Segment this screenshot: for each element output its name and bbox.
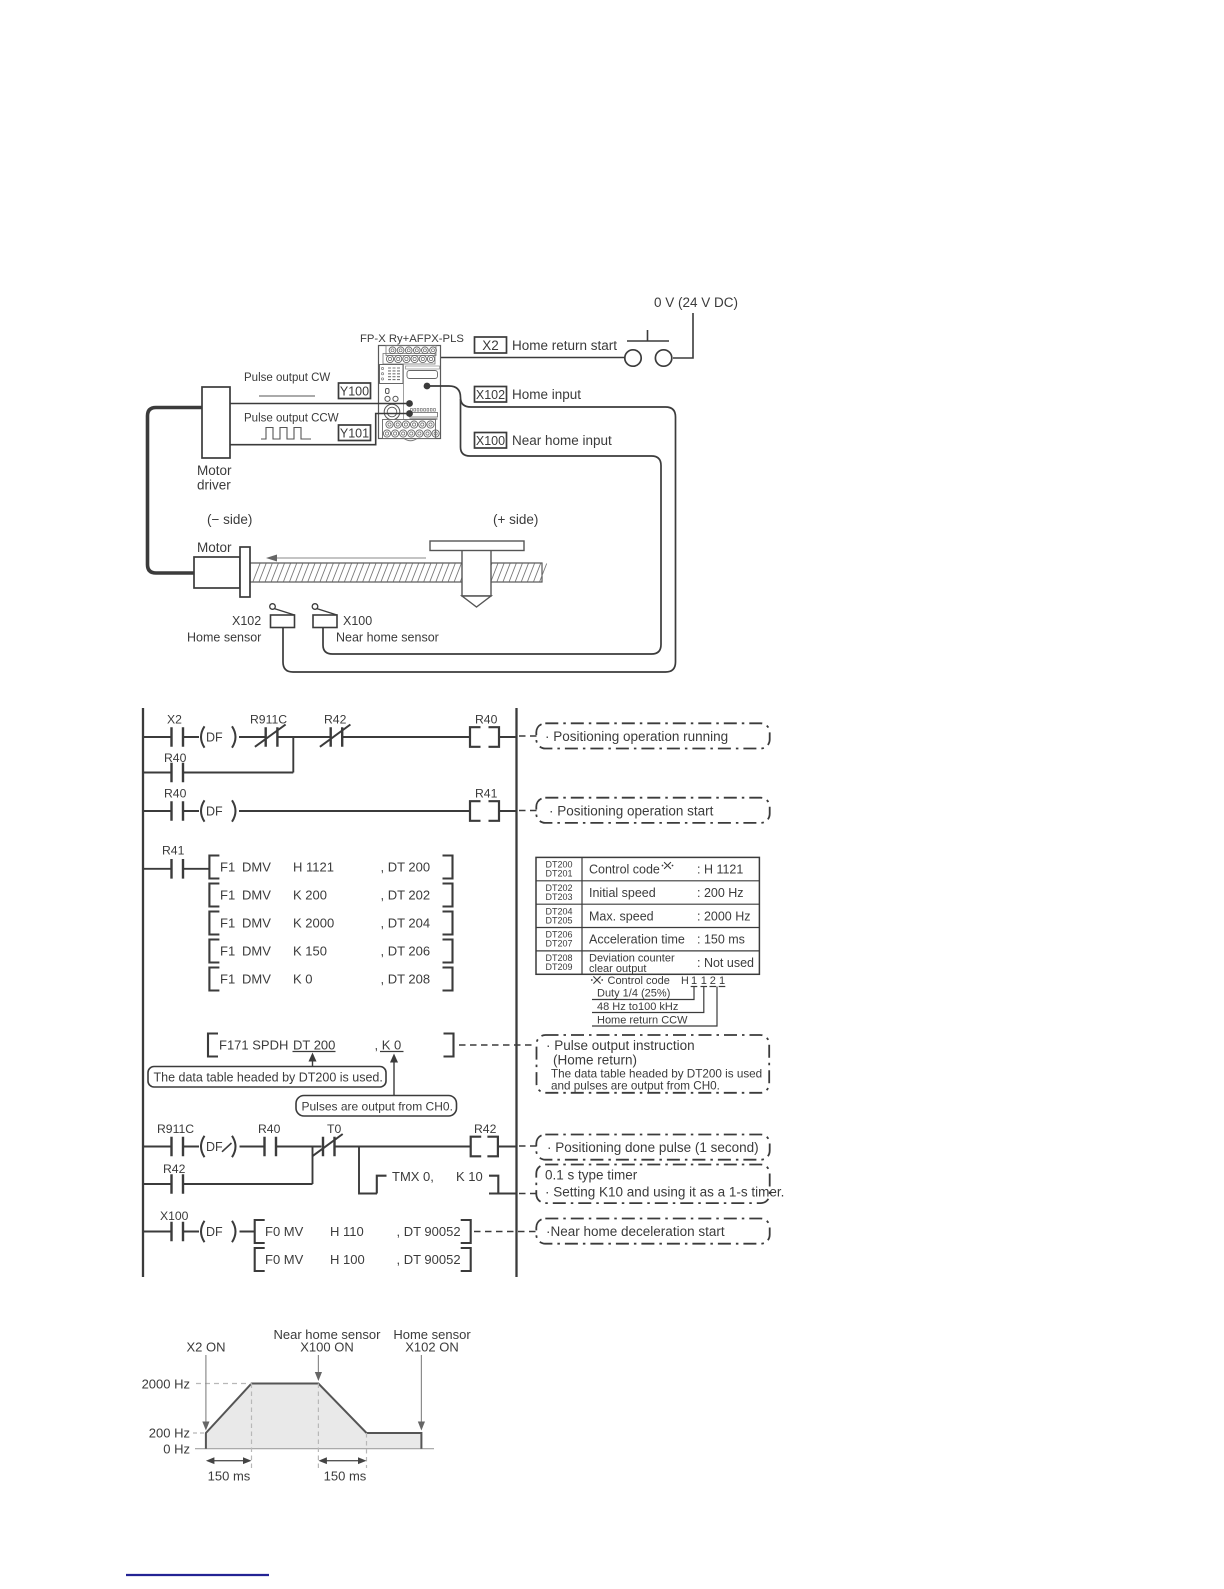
label Pulse output CW xyxy=(244,372,330,396)
wire X102 loop home sensor to PLC xyxy=(283,383,676,672)
DF rising edge rung1 xyxy=(201,726,236,747)
wire X100 loop near home sensor xyxy=(323,399,661,654)
table DT200 settings xyxy=(536,857,759,975)
svg-text:X2: X2 xyxy=(167,713,182,727)
arrow X100 ON xyxy=(315,1355,322,1381)
svg-text:1: 1 xyxy=(719,975,725,987)
svg-text:F0 MV: F0 MV xyxy=(265,1252,304,1267)
label Home return start xyxy=(512,338,617,353)
label Near home input xyxy=(512,433,612,448)
label 200 Hz xyxy=(149,1426,190,1441)
svg-text:R42: R42 xyxy=(474,1122,497,1136)
dashed link TMX xyxy=(519,1193,537,1195)
DF rising edge rung2 xyxy=(201,800,236,821)
callout Positioning operation running xyxy=(536,723,769,748)
label FP-X Ry+AFPX-PLS xyxy=(360,333,464,345)
chart dashed level 200Hz xyxy=(193,1432,206,1434)
svg-text:driver: driver xyxy=(197,478,231,493)
dashed link rung1 xyxy=(519,735,537,737)
svg-text:·Near home deceleration start: ·Near home deceleration start xyxy=(546,1224,725,1239)
pushbutton switch Home return start xyxy=(625,330,672,366)
svg-text:Pulse output CW: Pulse output CW xyxy=(244,372,330,384)
svg-text:Y100: Y100 xyxy=(340,384,369,398)
svg-text:and pulses are output from CH0: and pulses are output from CH0. xyxy=(551,1080,720,1093)
rung 5 wire xyxy=(143,1231,255,1233)
callout Pulse output instruction xyxy=(537,1035,770,1093)
node X2 box xyxy=(475,337,507,353)
ball screw shaft hatched xyxy=(250,563,547,582)
label 150 ms decel xyxy=(324,1469,367,1484)
svg-text:TMX 0,: TMX 0, xyxy=(392,1169,434,1184)
instruction F1 DMV DT 200 xyxy=(209,856,452,879)
svg-text:Near home input: Near home input xyxy=(512,433,612,448)
dashed link rung4 xyxy=(519,1145,537,1147)
svg-text:X2 ON: X2 ON xyxy=(186,1340,225,1355)
svg-text:H 1121: H 1121 xyxy=(293,860,334,875)
label 2000 Hz xyxy=(142,1377,190,1392)
instruction F0 MV H100 xyxy=(255,1248,471,1271)
junction branch rung1 xyxy=(292,737,294,773)
svg-text:K 10: K 10 xyxy=(456,1169,483,1184)
contact R40 rung2 xyxy=(164,787,187,821)
svg-text:R40: R40 xyxy=(258,1122,281,1136)
svg-text:F171 SPDH: F171 SPDH xyxy=(219,1038,288,1053)
svg-text:· Positioning operation runnin: · Positioning operation running xyxy=(545,729,728,744)
carriage slider xyxy=(430,541,524,607)
instruction F1 DMV DT 206 xyxy=(209,940,452,963)
node Y101 box xyxy=(339,425,371,441)
svg-text:48 Hz to100 kHz: 48 Hz to100 kHz xyxy=(597,1001,678,1013)
svg-text:R40: R40 xyxy=(164,751,187,765)
svg-text:, DT 200: , DT 200 xyxy=(381,860,431,875)
svg-text:: Not used: : Not used xyxy=(697,956,754,970)
callout Near home deceleration start xyxy=(536,1219,769,1244)
svg-text:F0 MV: F0 MV xyxy=(265,1224,304,1239)
svg-text:1: 1 xyxy=(701,975,707,987)
svg-text:DT203: DT203 xyxy=(545,892,572,902)
svg-text:Duty 1/4 (25%): Duty 1/4 (25%) xyxy=(597,988,670,1000)
svg-text:Max. speed: Max. speed xyxy=(589,909,654,923)
rung 2 wire xyxy=(143,810,517,812)
svg-text:· Pulse output instruction: · Pulse output instruction xyxy=(546,1038,695,1053)
svg-text:0 V (24 V DC): 0 V (24 V DC) xyxy=(654,295,738,310)
node X100 box xyxy=(475,433,507,449)
note box pulses output from CH0 xyxy=(296,1054,457,1117)
contact T0 normally closed xyxy=(312,1122,343,1156)
label Home sensor X102 ON xyxy=(393,1327,471,1355)
svg-text:(+ side): (+ side) xyxy=(493,512,538,527)
svg-text:X100 ON: X100 ON xyxy=(300,1340,353,1355)
contact R40 rung4 xyxy=(258,1122,281,1156)
svg-text:Home return CCW: Home return CCW xyxy=(597,1015,688,1027)
branch wire R42 holding xyxy=(143,1183,313,1185)
svg-text:H 100: H 100 xyxy=(330,1252,365,1267)
svg-text:DT205: DT205 xyxy=(545,915,572,925)
label Pulse output CCW xyxy=(244,413,339,440)
svg-text:DF: DF xyxy=(206,1140,223,1154)
svg-text:Home return start: Home return start xyxy=(512,338,617,353)
note control code breakdown xyxy=(591,975,725,1027)
svg-text:2000 Hz: 2000 Hz xyxy=(142,1377,190,1392)
chart dashed vertical decel start xyxy=(317,1384,319,1469)
rung 3 wire xyxy=(143,868,209,870)
limit switch X102 home sensor xyxy=(270,604,295,628)
label X100 Near home sensor xyxy=(336,614,439,645)
svg-text:X100: X100 xyxy=(343,614,372,628)
svg-text:1: 1 xyxy=(691,975,697,987)
svg-text:· Positioning done pulse (1 se: · Positioning done pulse (1 second) xyxy=(547,1140,759,1155)
instruction F171 SPDH xyxy=(208,1034,454,1057)
svg-text:, K 0: , K 0 xyxy=(375,1038,402,1053)
svg-text:The data table headed by DT200: The data table headed by DT200 is used. xyxy=(154,1071,383,1085)
contact R911C rung4 xyxy=(157,1122,194,1156)
svg-text:(− side): (− side) xyxy=(207,512,252,527)
contact X100 xyxy=(160,1209,189,1241)
DF falling edge xyxy=(201,1136,236,1157)
svg-text:F1: F1 xyxy=(220,944,235,959)
svg-text:DF: DF xyxy=(206,805,223,819)
svg-text:DMV: DMV xyxy=(242,972,271,987)
contact R911C normally closed xyxy=(250,713,287,747)
svg-text:Motor: Motor xyxy=(197,540,232,555)
svg-text:150 ms: 150 ms xyxy=(208,1469,251,1484)
contact R42 holding xyxy=(163,1162,186,1194)
PLC unit FP-X body xyxy=(379,346,441,441)
svg-text:X100: X100 xyxy=(476,434,505,448)
timer TMX 0 K10 xyxy=(377,1169,517,1194)
callout Positioning done pulse xyxy=(536,1135,769,1160)
instruction F1 DMV DT 202 xyxy=(209,884,452,907)
svg-text:H 110: H 110 xyxy=(330,1224,364,1239)
svg-text:T0: T0 xyxy=(327,1122,341,1136)
instruction F1 DMV DT 208 xyxy=(209,968,452,991)
wire supply to pushbutton xyxy=(673,313,693,358)
svg-text:Control code: Control code xyxy=(589,863,660,877)
chart speed profile fill xyxy=(206,1384,422,1449)
chart dashed level 2000Hz xyxy=(196,1383,252,1385)
label 150 ms accel xyxy=(208,1469,251,1484)
coil R41 xyxy=(470,787,499,821)
svg-text:clear output: clear output xyxy=(589,963,646,975)
arrow X2 ON xyxy=(202,1355,209,1431)
svg-text:K 200: K 200 xyxy=(293,888,327,903)
label minus side xyxy=(207,512,252,527)
svg-text:R41: R41 xyxy=(475,787,498,801)
contact R42 normally closed xyxy=(320,713,351,747)
DF rising edge rung5 xyxy=(201,1221,236,1242)
wire Y100 pulse CW xyxy=(230,400,413,407)
svg-text:Pulses are output from CH0.: Pulses are output from CH0. xyxy=(302,1100,453,1114)
callout 0.1 s type timer xyxy=(536,1165,784,1204)
svg-text:, DT 202: , DT 202 xyxy=(381,888,431,903)
svg-text:· Positioning operation start: · Positioning operation start xyxy=(549,804,714,819)
arrow travel direction left xyxy=(266,555,426,562)
svg-text:K 150: K 150 xyxy=(293,944,327,959)
svg-text:Pulse output CCW: Pulse output CCW xyxy=(244,413,339,425)
svg-text:X102: X102 xyxy=(232,614,261,628)
instruction F1 DMV DT 204 xyxy=(209,912,452,935)
svg-text:: 200 Hz: : 200 Hz xyxy=(697,886,744,900)
ladder right rail xyxy=(515,708,517,1277)
chart dashed vertical decel end xyxy=(366,1433,368,1468)
wire X2 input to pushbutton xyxy=(433,354,625,361)
svg-text:R911C: R911C xyxy=(157,1122,194,1136)
svg-text:K 2000: K 2000 xyxy=(293,916,334,931)
svg-text:DF: DF xyxy=(206,731,223,745)
chart dashed vertical accel end xyxy=(251,1384,253,1469)
cable driver to motor (thick) xyxy=(148,408,203,574)
dimension arrow 150ms decel xyxy=(318,1457,366,1464)
svg-text:F1: F1 xyxy=(220,916,235,931)
svg-text:K 0: K 0 xyxy=(293,972,313,987)
dimension arrow 150ms accel xyxy=(206,1457,252,1464)
rung 4 wire xyxy=(143,1146,517,1148)
svg-text:X2: X2 xyxy=(482,338,499,353)
branch wire R40 holding xyxy=(143,772,293,774)
svg-text:, DT 204: , DT 204 xyxy=(381,916,431,931)
motor driver box xyxy=(202,387,230,458)
svg-text:R40: R40 xyxy=(164,787,187,801)
svg-text:DT209: DT209 xyxy=(545,962,572,972)
motor body xyxy=(194,547,250,597)
svg-text:DMV: DMV xyxy=(242,888,271,903)
footer rule blue xyxy=(126,1574,269,1576)
svg-text:(Home return): (Home return) xyxy=(553,1053,637,1068)
chart axis baseline xyxy=(195,1448,434,1450)
contact X2 xyxy=(167,713,183,747)
contact R41 xyxy=(162,844,185,879)
svg-text:R42: R42 xyxy=(324,713,347,727)
label plus side xyxy=(493,512,538,527)
svg-text:: H 1121: : H 1121 xyxy=(697,863,743,877)
note box data table headed by DT200 xyxy=(148,1053,386,1088)
svg-text:, DT 206: , DT 206 xyxy=(381,944,431,959)
svg-text:F1: F1 xyxy=(220,888,235,903)
label Home input xyxy=(512,387,581,402)
instruction F0 MV H110 xyxy=(255,1220,471,1243)
label Near home sensor X100 ON xyxy=(274,1327,382,1355)
svg-text:DT207: DT207 xyxy=(545,939,572,949)
svg-text:H: H xyxy=(681,975,689,987)
label 0V 24V DC supply xyxy=(654,295,738,310)
coil R42 xyxy=(471,1122,498,1156)
label Motor xyxy=(197,540,232,555)
contact R40 holding xyxy=(164,751,187,782)
svg-text:R42: R42 xyxy=(163,1162,186,1176)
svg-text:F1: F1 xyxy=(220,860,235,875)
ladder left rail xyxy=(142,708,144,1277)
junction R42 branch xyxy=(312,1147,314,1185)
svg-text:DMV: DMV xyxy=(242,944,271,959)
chart profile outline xyxy=(206,1384,422,1449)
svg-text:, DT 90052: , DT 90052 xyxy=(397,1252,461,1267)
junction TMX branch xyxy=(359,1147,377,1194)
svg-text:R40: R40 xyxy=(475,713,498,727)
svg-text:DMV: DMV xyxy=(242,860,271,875)
rung 1 wire xyxy=(143,736,517,738)
svg-text:0 Hz: 0 Hz xyxy=(163,1442,190,1457)
svg-text:DT201: DT201 xyxy=(545,869,572,879)
callout Positioning operation start xyxy=(536,798,769,823)
svg-text:DT 200: DT 200 xyxy=(293,1038,335,1053)
label X2 ON xyxy=(186,1340,225,1355)
svg-text:Home sensor: Home sensor xyxy=(187,631,261,645)
coil R40 xyxy=(470,713,499,747)
svg-text:X100: X100 xyxy=(160,1209,189,1223)
svg-text:150 ms: 150 ms xyxy=(324,1469,367,1484)
svg-text:F1: F1 xyxy=(220,972,235,987)
svg-text:Motor: Motor xyxy=(197,463,232,478)
svg-text:R41: R41 xyxy=(162,844,185,858)
svg-text:DMV: DMV xyxy=(242,916,271,931)
svg-text:2: 2 xyxy=(710,975,716,987)
svg-text:· Setting K10 and using it as: · Setting K10 and using it as a 1-s time… xyxy=(545,1185,784,1200)
dashed link rung2 xyxy=(519,810,537,812)
svg-text:: 150 ms: : 150 ms xyxy=(697,933,745,947)
svg-text:200 Hz: 200 Hz xyxy=(149,1426,190,1441)
dashed link F171 to callout xyxy=(459,1044,536,1046)
svg-text:Near home sensor: Near home sensor xyxy=(336,631,439,645)
svg-text:X102 ON: X102 ON xyxy=(405,1340,458,1355)
svg-text:R911C: R911C xyxy=(250,713,287,727)
svg-text:Control code: Control code xyxy=(608,975,670,987)
svg-text:, DT 90052: , DT 90052 xyxy=(397,1224,461,1239)
svg-text:FP-X Ry+AFPX-PLS: FP-X Ry+AFPX-PLS xyxy=(360,333,464,345)
svg-text:Initial speed: Initial speed xyxy=(589,886,656,900)
svg-text:Y101: Y101 xyxy=(340,426,369,440)
svg-text:, DT 208: , DT 208 xyxy=(381,972,431,987)
svg-text:DF: DF xyxy=(206,1225,223,1239)
svg-text:X102: X102 xyxy=(476,388,505,402)
label X102 Home sensor xyxy=(187,614,261,645)
wire Y101 pulse CCW xyxy=(230,410,413,445)
node X102 box xyxy=(475,387,507,403)
limit switch X100 near home sensor xyxy=(312,604,337,628)
arrow X102 ON xyxy=(418,1355,425,1431)
dashed link rung5 xyxy=(474,1231,537,1233)
label Motor driver xyxy=(197,463,232,493)
svg-text:Acceleration time: Acceleration time xyxy=(589,933,685,947)
node Y100 box xyxy=(339,383,371,399)
svg-text:: 2000 Hz: : 2000 Hz xyxy=(697,909,751,923)
svg-text:0.1 s type timer: 0.1 s type timer xyxy=(545,1168,638,1183)
label 0 Hz xyxy=(163,1442,190,1457)
svg-text:Home input: Home input xyxy=(512,387,581,402)
